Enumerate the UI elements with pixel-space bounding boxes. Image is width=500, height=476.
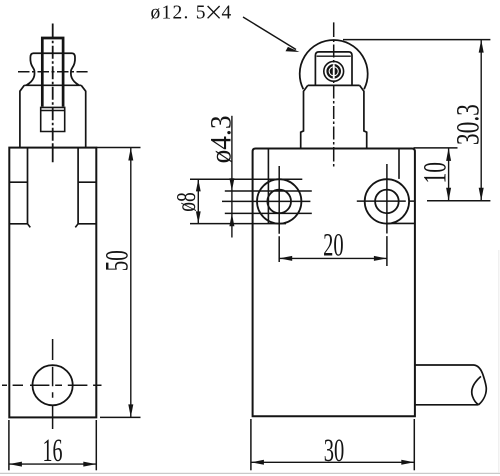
mounting hole right outer (365, 179, 409, 223)
centerline plunger axis (52, 24, 54, 163)
mounting hole left view (33, 365, 73, 405)
svg-text:ø12. 5: ø12. 5 (151, 3, 206, 24)
stem right side (360, 85, 367, 148)
leader arrowhead (286, 47, 300, 52)
dimension 30.3 arrow down (479, 188, 484, 201)
dimension 30 line (251, 461, 414, 463)
svg-text:20: 20 (323, 227, 344, 263)
svg-text:10: 10 (418, 162, 454, 184)
dimension 20 line (279, 257, 387, 259)
dimension 30.3 extension top (343, 39, 490, 41)
centerline roller axis (333, 22, 335, 166)
roller wheel (300, 40, 368, 89)
dia4.3 dimension line (231, 116, 233, 238)
dimension 20 arrow right (374, 256, 387, 261)
svg-text:50: 50 (99, 250, 135, 271)
dia4.3 extension bottom (225, 212, 312, 214)
dimension 16 line (9, 463, 96, 465)
leader line dia12.5x4 (243, 17, 296, 50)
mounting hole left inner (267, 190, 291, 214)
dia4.3 arrow up (229, 213, 234, 226)
roller bracket (315, 52, 352, 86)
dia8 dimension line (197, 179, 199, 223)
dimension 50 arrow down (128, 404, 133, 417)
dimension 30.3 arrow up (479, 40, 484, 53)
dia4.3 extension top (225, 190, 312, 192)
svg-text:30: 30 (324, 433, 345, 469)
dimension 20 arrow left (279, 256, 292, 261)
svg-text:ø8: ø8 (171, 192, 201, 212)
switch body left view (9, 148, 96, 418)
svg-text:16: 16 (43, 433, 63, 469)
hole horizontal centerline (2, 384, 102, 386)
dia8 arrow up (196, 179, 201, 191)
slot lower tick right (75, 224, 95, 228)
svg-text:ø4.3: ø4.3 (205, 115, 237, 163)
dimension 16 arrow right (83, 462, 96, 467)
dimension 30.3 line (480, 40, 482, 201)
dimension 50 line (130, 148, 132, 418)
pin guide tube (41, 107, 65, 131)
body inner line right (398, 149, 400, 179)
svg-text:30.3: 30.3 (451, 104, 487, 145)
mounting hole left outer (257, 179, 301, 223)
rubber bellows boot (26, 53, 79, 85)
roller axle slot (333, 64, 335, 78)
roller axle outer circle (324, 61, 344, 81)
slot lower tick left (10, 224, 30, 228)
plunger pin (42, 38, 63, 107)
dia8 extension top (190, 178, 302, 180)
roller axle mid circle (328, 65, 340, 77)
dimension 30 arrow right (401, 460, 414, 465)
pin guide tube ring line (41, 110, 65, 112)
neck cylinder (20, 85, 86, 147)
dimension 30 extension right (413, 419, 415, 470)
hole right vertical centerline (386, 164, 388, 266)
hole left horizontal centerline (222, 200, 310, 202)
body inner line left (267, 149, 269, 224)
frame bottom border (0, 472, 500, 474)
switch body front view (253, 149, 415, 417)
mounting hole right inner (375, 190, 399, 214)
dimension 16 arrow left (9, 462, 22, 467)
stem left side (301, 85, 308, 148)
body step line right (387, 222, 414, 224)
dia8 arrow down (196, 211, 201, 223)
label multiplication sign (208, 6, 220, 18)
stem top edge (308, 84, 360, 86)
dimension 16 extension left (8, 420, 10, 470)
hole right horizontal centerline (357, 200, 415, 202)
cable gland (415, 365, 486, 405)
body slot right line (77, 148, 79, 224)
hole vertical centerline (52, 339, 54, 429)
hole left vertical centerline (278, 166, 280, 262)
dimension 50 extension top (97, 147, 141, 149)
body slot left line (27, 148, 29, 224)
roller axle center dot (330, 67, 338, 75)
slot upper tick left (9, 181, 27, 183)
svg-text:4: 4 (222, 3, 232, 24)
dimension 30 extension left (250, 419, 252, 470)
dimension 10 line (448, 148, 450, 201)
dimension 30 arrow left (251, 460, 264, 465)
roller bracket inner line (317, 55, 351, 57)
frame right border (498, 250, 500, 473)
slot upper tick right (78, 181, 96, 183)
dia8 extension bottom (190, 223, 286, 225)
dia4.3 arrow down (229, 178, 234, 191)
dimension 10 arrow down (446, 188, 451, 201)
dimension 10 arrow up (446, 148, 451, 161)
cable break symbol (472, 376, 481, 404)
dimension 50 extension bottom (100, 416, 141, 418)
dimension 30.3/10 extension bottom (427, 200, 490, 202)
dimension 16 extension right (95, 420, 97, 470)
dimension 50 arrow up (128, 148, 133, 161)
dimension 10 extension top (414, 147, 458, 149)
bellows waist line (18, 71, 88, 73)
